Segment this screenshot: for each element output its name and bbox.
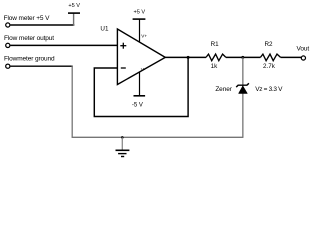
terminal T2 (6, 43, 10, 47)
pin V+ (140, 19, 148, 41)
svg-text:Vz = 3.3 V: Vz = 3.3 V (255, 86, 283, 93)
wire T3 to ground rail (11, 65, 73, 67)
terminal Vout (301, 56, 305, 60)
svg-text:R2: R2 (264, 41, 273, 48)
ground (116, 136, 130, 156)
wire T2 to op-amp + input (11, 44, 118, 46)
resistor R2 (260, 41, 280, 70)
wire ground rail (72, 136, 244, 138)
pin V- (140, 67, 146, 96)
power -5 V (op-amp) (132, 96, 145, 109)
wire zener branch (242, 57, 244, 137)
svg-text:R1: R1 (211, 41, 220, 48)
svg-text:Flow meter +5 V: Flow meter +5 V (4, 15, 50, 22)
svg-text:Flow meter output: Flow meter output (4, 35, 54, 42)
svg-text:+5 V: +5 V (68, 3, 80, 9)
wire feedback loop (94, 57, 188, 116)
svg-text:1k: 1k (211, 63, 219, 70)
wire R1 to R2 (226, 56, 261, 58)
wire T1 to +5V stub (11, 24, 75, 26)
svg-text:Flowmeter ground: Flowmeter ground (4, 55, 55, 62)
power +5 V (op-amp) (133, 10, 146, 20)
zener diode D1 (215, 83, 283, 93)
wire op-amp output (165, 56, 206, 58)
svg-text:-5 V: -5 V (132, 103, 143, 109)
terminal T1 (6, 23, 10, 27)
wire R2 to Vout (281, 56, 301, 58)
svg-text:Zener: Zener (215, 86, 232, 93)
resistor R1 (206, 41, 226, 70)
svg-text:2.7k: 2.7k (263, 63, 276, 70)
svg-text:+5 V: +5 V (133, 10, 145, 16)
terminal T3 (6, 64, 10, 68)
junction output node (187, 56, 190, 59)
svg-text:V+: V+ (141, 34, 147, 39)
junction zener node (241, 56, 244, 59)
svg-text:V-: V- (141, 67, 146, 72)
svg-text:Vout: Vout (296, 46, 309, 53)
op-amp U1 (100, 26, 165, 85)
svg-text:U1: U1 (100, 26, 109, 33)
power +5 V (left) (68, 3, 80, 13)
